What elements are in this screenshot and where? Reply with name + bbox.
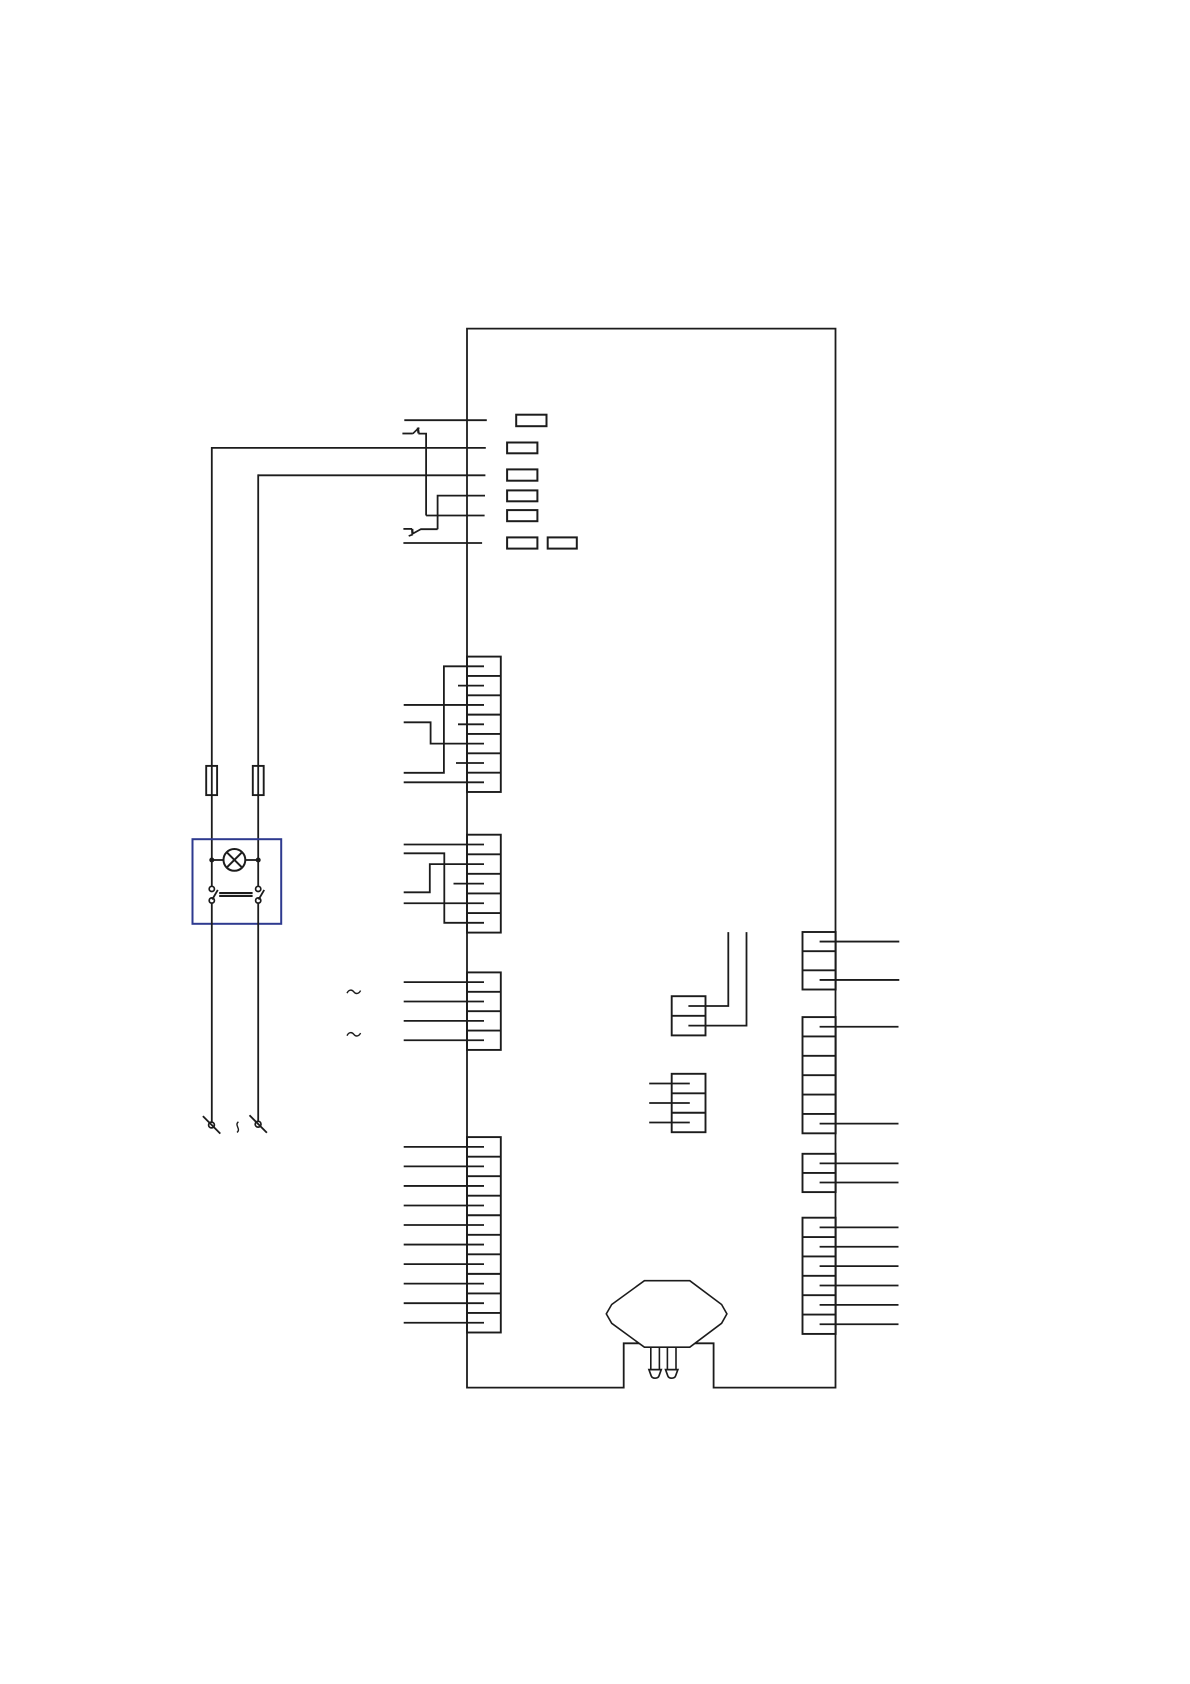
wire W1b bbox=[418, 434, 426, 516]
switch S2 stub bbox=[403, 528, 412, 530]
wire W4b bbox=[420, 528, 437, 530]
node A (junction dot left) bbox=[209, 858, 214, 863]
connector R2 body bbox=[803, 1017, 836, 1133]
jumper pad 5 bbox=[507, 510, 537, 521]
wire to J2 pin 2 bbox=[404, 864, 484, 892]
wire from K1 pin 1 bbox=[688, 932, 728, 1006]
lamp HL1 bbox=[224, 849, 246, 871]
wire from R2 pin 6 bbox=[820, 1123, 899, 1125]
wire to J4 pin 5 bbox=[404, 1224, 484, 1226]
node B (junction dot right) bbox=[256, 858, 261, 863]
wire to J4 pin 4 bbox=[404, 1204, 484, 1206]
wire to J2 pin 5 bbox=[404, 853, 484, 923]
wire W6 bbox=[403, 542, 482, 544]
switch S1 lever bbox=[413, 429, 418, 434]
wire from R4 pin 4 bbox=[820, 1284, 899, 1286]
wire W2 bbox=[212, 447, 486, 449]
jumper pad 7 bbox=[548, 537, 577, 548]
connector R1 body bbox=[803, 932, 836, 990]
wire line-N lower bbox=[257, 903, 259, 1121]
wire to J2 pin 1 bbox=[404, 843, 484, 845]
wire from R4 pin 1 bbox=[820, 1226, 899, 1228]
switch S1 spike bbox=[417, 428, 420, 433]
wire line-L lower bbox=[211, 903, 213, 1122]
terminal X2 blade bbox=[250, 1115, 267, 1133]
jumper pad 2 bbox=[507, 443, 537, 454]
J1 pin 6 bbox=[456, 762, 484, 764]
wire line-L upper bbox=[211, 447, 213, 886]
jumper pad 6 bbox=[507, 537, 537, 548]
wire to J4 pin 1 bbox=[404, 1146, 484, 1148]
switch SW-R contact bottom bbox=[256, 898, 261, 903]
wire W5 bbox=[426, 515, 485, 517]
switch S1 stub bbox=[402, 433, 412, 435]
wire from R4 pin 6 bbox=[820, 1323, 899, 1325]
wire to J1 pin 5 bbox=[404, 722, 484, 743]
wire W3 bbox=[258, 474, 485, 476]
wire from R1 pin 1 bbox=[820, 941, 900, 943]
wire from K1 pin 2 bbox=[688, 932, 746, 1026]
connector K2 body bbox=[672, 1074, 706, 1132]
terminal X2 bbox=[255, 1121, 261, 1127]
switch S2 hook bbox=[409, 534, 413, 536]
connector J3 body bbox=[467, 972, 501, 1050]
connector R3 body bbox=[803, 1154, 836, 1192]
wire to J1 pin 3 bbox=[404, 704, 484, 706]
wire from R4 pin 5 bbox=[820, 1304, 899, 1306]
wire from R1 pin 3 bbox=[820, 979, 900, 981]
octagonal component U1 bbox=[606, 1281, 727, 1348]
lamp lead right bbox=[245, 859, 258, 861]
terminal X1 bbox=[209, 1122, 215, 1128]
wire to J4 pin 7 bbox=[404, 1263, 484, 1265]
connector J1 body bbox=[467, 657, 501, 792]
wire to J3 pin 2 bbox=[404, 1000, 484, 1002]
jumper pad 4 bbox=[507, 490, 537, 501]
switch SW-R lever bbox=[259, 890, 265, 900]
wire to J4 pin 6 bbox=[404, 1244, 484, 1246]
AC symbol 1 bbox=[347, 990, 361, 993]
wire to J3 pin 4 bbox=[404, 1039, 484, 1041]
wire to J3 pin 3 bbox=[404, 1020, 484, 1022]
switch S1 hook bbox=[417, 427, 420, 430]
wire W1 bbox=[404, 419, 487, 421]
J1 pin 2 bbox=[458, 685, 484, 687]
J1 pin 4 bbox=[458, 723, 484, 725]
lamp lead left bbox=[212, 859, 224, 861]
wire from R4 pin 3 bbox=[820, 1265, 899, 1267]
connector J4 body bbox=[467, 1137, 501, 1332]
connector K1 body bbox=[672, 996, 706, 1035]
switch SW-R contact top bbox=[256, 886, 261, 891]
U1 pin 1 tip bbox=[649, 1370, 661, 1379]
wire from R3 pin 2 bbox=[820, 1182, 899, 1184]
wire to J4 pin 10 bbox=[404, 1322, 484, 1324]
switch SW-L lever bbox=[212, 890, 218, 900]
AC symbol 2 bbox=[347, 1033, 361, 1036]
wire to J4 pin 8 bbox=[404, 1283, 484, 1285]
switch unit box bbox=[193, 839, 282, 924]
fuse F2 bbox=[253, 766, 264, 795]
switch SW-L contact top bbox=[209, 886, 214, 891]
wire to K2 pin 2 bbox=[649, 1102, 690, 1104]
fuse F1 bbox=[206, 766, 217, 795]
wire to J4 pin 9 bbox=[404, 1302, 484, 1304]
U1 pin 2 body bbox=[667, 1347, 676, 1369]
wire to J3 pin 1 bbox=[404, 981, 484, 983]
jumper pad 1 bbox=[516, 415, 546, 427]
wire to J2 pin 4 bbox=[404, 902, 484, 904]
switch coupling bar bbox=[219, 893, 252, 896]
wire to K2 pin 1 bbox=[649, 1083, 690, 1085]
wire to J4 pin 3 bbox=[404, 1185, 484, 1187]
wire from R3 pin 1 bbox=[820, 1162, 899, 1164]
jumper pad 3 bbox=[507, 469, 537, 480]
main board outline bbox=[467, 329, 836, 1388]
wire to K2 pin 3 bbox=[649, 1121, 690, 1123]
wire to J1 pin 7 bbox=[404, 781, 484, 783]
switch S2 spike bbox=[411, 529, 414, 534]
AC tilde between terminals bbox=[237, 1122, 239, 1133]
wire to J1 pin 1 bbox=[404, 666, 484, 773]
wire W4 bbox=[438, 496, 485, 530]
connector J2 body bbox=[467, 835, 501, 933]
wire from R2 pin 1 bbox=[820, 1026, 899, 1028]
wire from R4 pin 2 bbox=[820, 1246, 899, 1248]
U1 pin 1 body bbox=[651, 1347, 660, 1369]
switch S2 lever bbox=[413, 529, 421, 534]
wire line-N upper bbox=[257, 474, 259, 886]
J2 pin 3 bbox=[454, 883, 485, 885]
connector R4 body bbox=[803, 1218, 836, 1334]
terminal X1 blade bbox=[203, 1116, 220, 1134]
U1 pin 2 tip bbox=[666, 1370, 678, 1379]
switch SW-L contact bottom bbox=[209, 898, 214, 903]
wire to J4 pin 2 bbox=[404, 1165, 484, 1167]
lamp HL1 cross bbox=[227, 852, 242, 867]
